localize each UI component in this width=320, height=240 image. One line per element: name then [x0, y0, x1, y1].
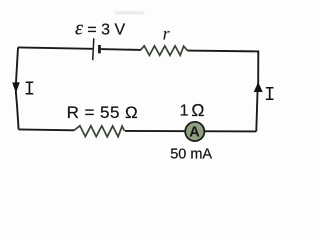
svg-text:ε = 3 V: ε = 3 V — [75, 18, 125, 40]
scan smudge artifact — [115, 11, 145, 14]
ammeter A1 body — [185, 122, 204, 141]
wire top-middle segment — [101, 48, 141, 51]
battery B1 short plate (-) — [98, 45, 101, 53]
svg-text:Ω: Ω — [191, 100, 204, 120]
wire bottom segment right — [125, 130, 256, 133]
svg-text:I: I — [24, 79, 35, 101]
wire left side — [16, 47, 19, 129]
current arrow right (up) — [254, 82, 263, 92]
battery B1 long plate (+) — [93, 38, 94, 60]
wire top-right segment — [187, 50, 258, 53]
svg-text:r: r — [163, 24, 171, 44]
svg-text:50 mA: 50 mA — [170, 147, 212, 163]
wire bottom segment left — [19, 128, 75, 131]
svg-text:A: A — [189, 125, 200, 141]
svg-text:1: 1 — [180, 103, 189, 120]
svg-text:R = 55 Ω: R = 55 Ω — [67, 103, 139, 122]
svg-text:I: I — [264, 84, 275, 106]
wire top-left segment — [18, 47, 92, 48]
resistor R zigzag — [74, 126, 124, 137]
resistor r zigzag — [141, 46, 188, 55]
wire right side — [256, 51, 258, 132]
current arrow left (down) — [12, 82, 20, 93]
